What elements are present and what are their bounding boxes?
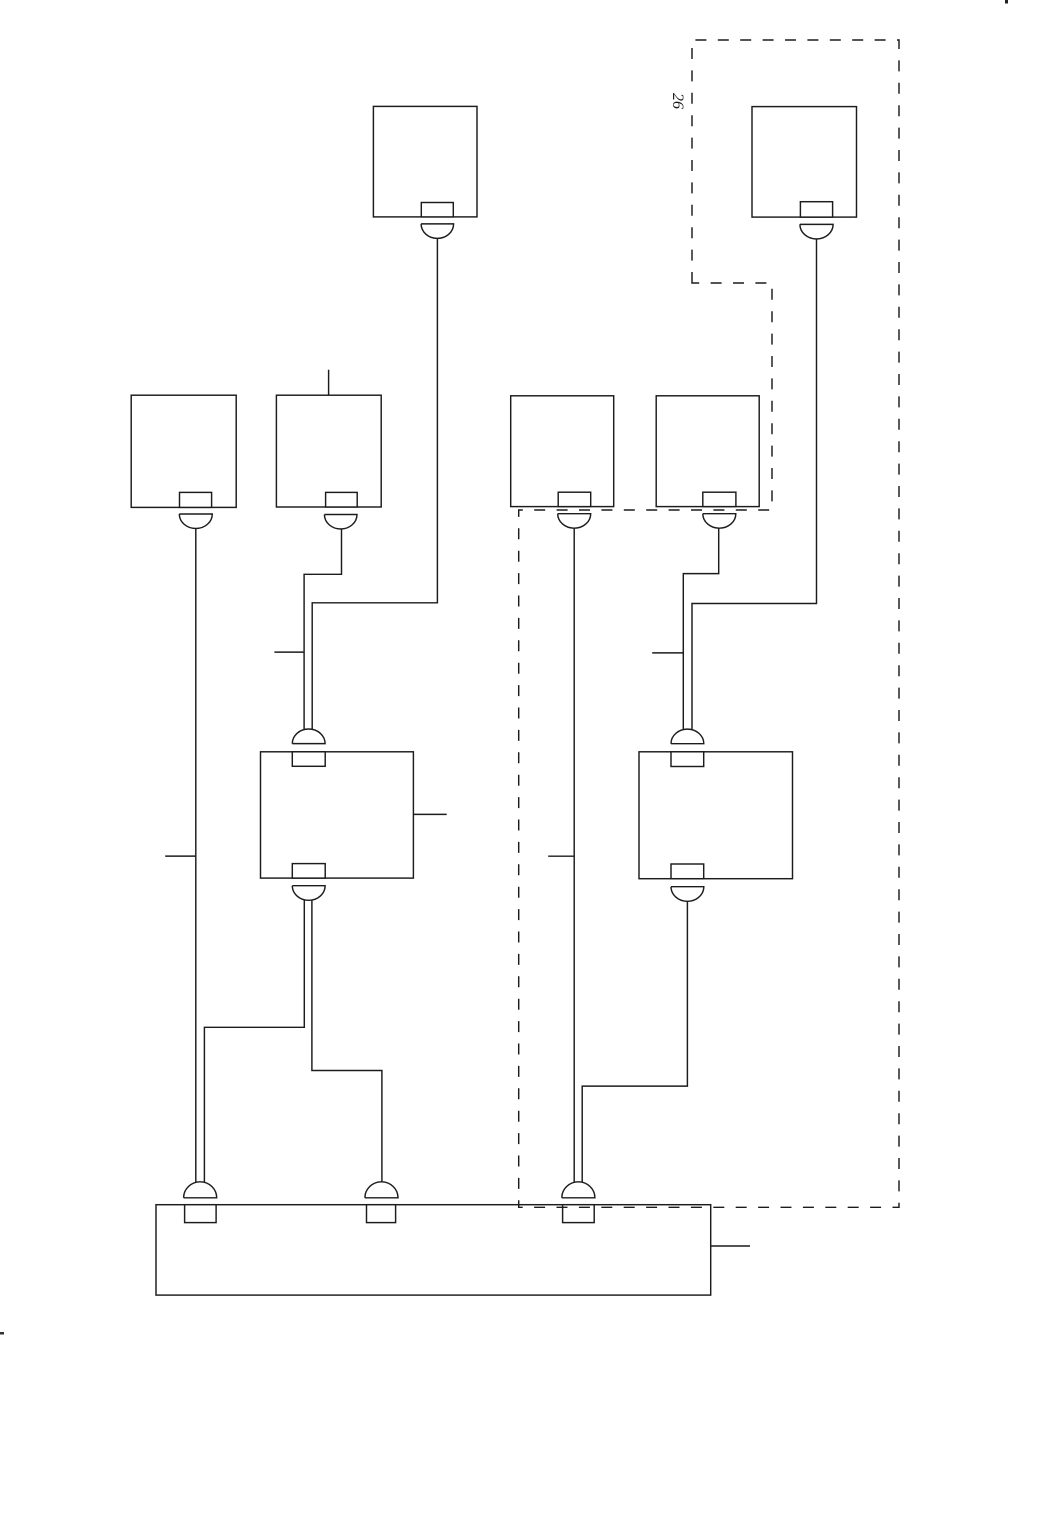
left block bottom tab [292, 864, 325, 879]
box D [656, 396, 759, 507]
left block bottom dome [292, 886, 325, 901]
top-left box [373, 106, 477, 216]
top-left box tab [421, 203, 453, 217]
stub S2 right of left block [413, 813, 446, 815]
top-right box [752, 107, 857, 218]
bus dome 2 [365, 1182, 398, 1198]
wire W7 from box D down-left into right block top port [683, 529, 718, 732]
dome under box B [324, 515, 357, 530]
wire W4 left block bottom port left branch to bus port 1 [204, 898, 304, 1184]
top-right box tab [800, 202, 832, 217]
dome under box A [179, 514, 212, 529]
box A [131, 395, 236, 507]
wire W2 from box B down-left into left block top port [304, 529, 341, 731]
dome under top-right box [800, 224, 833, 239]
right block bottom tab [671, 864, 704, 879]
dome under box C [558, 514, 591, 529]
wire W6 from box C straight down to bus port 3 [573, 529, 575, 1185]
stub S1 on top of box B [328, 370, 330, 396]
wire W1 from top-left box down-left into left block top port [312, 239, 437, 732]
wire W9 right block bottom port down-left to bus port 3 [582, 901, 687, 1184]
left block [261, 752, 414, 878]
box C tab [558, 492, 591, 506]
bus tab 1 [185, 1205, 217, 1223]
right block top tab [671, 752, 704, 767]
stub S3 right of bus box [711, 1245, 750, 1247]
box D tab [703, 492, 736, 506]
bus tab 2 [367, 1205, 396, 1223]
wire W5 left block bottom port right branch to bus port 2 [312, 898, 382, 1184]
right block [639, 752, 793, 879]
box B [276, 395, 381, 507]
dome under top-left box [421, 224, 454, 239]
bus dome 3 [562, 1182, 595, 1198]
left block top tab [292, 752, 325, 767]
box A tab [180, 492, 212, 507]
right block bottom dome [671, 887, 704, 902]
dashed boundary 26 [519, 40, 899, 1207]
svg-text:26: 26 [669, 93, 686, 109]
wire W8 from top-right box down-left into right block top port [692, 240, 817, 732]
right block top dome [671, 729, 704, 744]
edge mark left [0, 1332, 4, 1335]
tick T3 on wire W6 [548, 855, 574, 857]
dome under box D [703, 514, 736, 529]
bus tab 3 [563, 1205, 595, 1223]
bus box [156, 1205, 711, 1295]
bus dome 1 [184, 1182, 217, 1198]
edge mark top [1005, 0, 1008, 4]
wire W3 from box A straight down to bus port 1 [195, 529, 197, 1184]
tick T2 on wire W2 [274, 651, 304, 653]
box C [511, 396, 614, 507]
tick T4 on wire W7 [652, 652, 683, 654]
tick T1 on wire W3 [165, 855, 196, 857]
left block top dome [292, 729, 325, 744]
box B tab [326, 492, 358, 507]
